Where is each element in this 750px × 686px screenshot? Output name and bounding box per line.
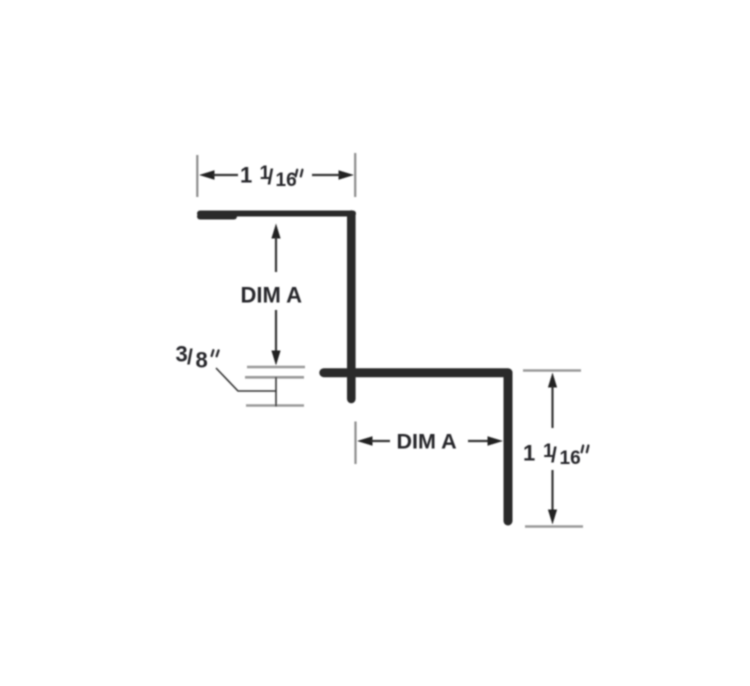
top flange hem (left end) [200,214,234,220]
svg-text:16: 16 [560,448,581,469]
DIM A vertical dimension upper arrow [271,224,280,273]
3/8 leader line [216,368,276,391]
svg-text:/: / [551,444,557,467]
right leg [504,373,513,521]
DIM A vertical dimension label [241,283,303,308]
3/8 dimension line vertical [275,377,277,407]
extension line right (top dimension) [354,153,356,197]
extension line bottom (right 1 1/16 dimension) [525,525,583,527]
middle flange [324,368,508,377]
right dimension up arrow [548,373,557,429]
svg-text:1: 1 [240,163,252,188]
3/8" label [176,342,219,373]
top dimension label 1 1/16" [240,163,302,192]
svg-text:1: 1 [523,441,535,466]
extension line (bottom DIM A dimension) [354,422,356,465]
top flange [200,211,353,217]
top dimension left arrow [199,170,238,179]
svg-text:3: 3 [176,342,188,367]
bottom DIM A left arrow [357,436,390,445]
svg-text:16: 16 [276,170,297,191]
DIM A vertical dimension lower arrow [271,310,280,366]
bottom DIM A label [397,430,457,454]
svg-text:DIM A: DIM A [397,430,457,454]
3/8 extension line top (flange top level) [247,366,305,369]
right dimension down arrow [548,470,557,525]
3/8 extension line bottom (web end level) [246,404,304,407]
svg-text:/: / [187,346,193,369]
extension line left (top dimension) [196,155,198,197]
svg-text:8: 8 [196,348,208,373]
svg-text:/: / [268,166,274,189]
bottom DIM A right arrow [468,436,503,445]
right dimension label 1 1/16" [523,441,588,470]
svg-text:DIM A: DIM A [241,283,303,308]
vertical web [347,215,356,400]
extension line top (right 1 1/16 dimension) [523,369,581,371]
top dimension right arrow [312,170,354,179]
3/8 extension line middle (flange bottom level) [245,376,304,379]
